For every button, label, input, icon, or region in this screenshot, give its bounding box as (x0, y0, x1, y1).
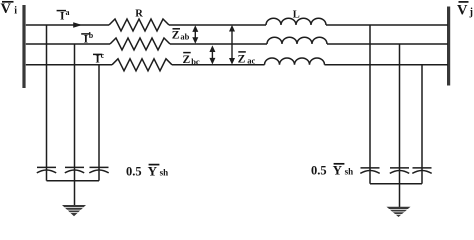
capacitor right c (412, 168, 431, 174)
svg-text:sh: sh (345, 167, 354, 177)
svg-text:Z: Z (172, 29, 180, 41)
svg-text:a: a (66, 8, 70, 17)
wire phase c left (26, 64, 112, 66)
wire rail left (47, 180, 100, 182)
current arrow Ia (73, 22, 82, 28)
wire shunt tap b right (399, 44, 401, 170)
svg-text:0.5: 0.5 (126, 164, 142, 178)
label Ia (57, 8, 70, 23)
wire shunt tap a left (46, 25, 48, 170)
wire rail right (370, 183, 422, 185)
ground left (62, 205, 86, 216)
label Zac (238, 52, 256, 66)
svg-text:R: R (135, 9, 143, 20)
wire shunt tap a right (369, 25, 371, 170)
resistor phase a (109, 19, 169, 31)
inductor phase b (267, 37, 327, 44)
impedance arrow Zac (229, 25, 235, 65)
svg-text:ac: ac (247, 55, 255, 65)
svg-text:Y: Y (148, 163, 158, 178)
label 0.5 Ysh right (311, 163, 353, 178)
svg-text:L: L (293, 10, 300, 21)
svg-text:bc: bc (191, 57, 200, 67)
wire phase a middle (169, 24, 266, 26)
wire phase b right (327, 43, 448, 45)
impedance arrow Zab (192, 25, 198, 44)
wire cap bottom leads left (47, 171, 100, 181)
svg-text:0.5: 0.5 (311, 164, 327, 178)
capacitor left c (89, 167, 108, 173)
svg-text:Y: Y (333, 163, 343, 178)
wire phase a right (326, 24, 448, 26)
wire phase b middle (170, 43, 267, 45)
svg-text:c: c (101, 51, 105, 60)
label 0.5 Ysh left (126, 163, 168, 178)
wire shunt tap c right (421, 65, 423, 170)
node Vi label (1, 1, 18, 17)
inductor phase a (266, 18, 326, 25)
wire phase b left (26, 43, 110, 45)
svg-text:V: V (1, 1, 12, 17)
inductor phase c (265, 58, 325, 65)
svg-text:b: b (89, 31, 94, 40)
label Ic (93, 51, 105, 65)
wire shunt tap b left (74, 44, 76, 170)
svg-text:i: i (14, 6, 17, 17)
node Vj label (457, 2, 473, 19)
label Zbc (183, 53, 200, 67)
label Ib (81, 31, 94, 46)
capacitor right b (390, 168, 409, 174)
resistor phase c (112, 59, 172, 71)
capacitor right a (360, 168, 379, 174)
wire cap bottom leads right (370, 171, 422, 184)
svg-text:I: I (60, 11, 65, 23)
wire phase c middle (172, 64, 265, 66)
label Zab (172, 29, 190, 42)
wire phase c right (325, 64, 449, 66)
wire shunt tap c left (98, 65, 100, 170)
svg-text:j: j (469, 7, 474, 18)
ground right (387, 207, 411, 217)
capacitor left a (37, 167, 56, 173)
svg-text:Z: Z (183, 54, 191, 66)
wire phase a left (26, 24, 109, 26)
bus bar Vi (left) (22, 5, 25, 88)
resistor phase b (110, 38, 170, 50)
wire ground stem right (399, 184, 401, 207)
svg-text:ab: ab (180, 31, 189, 41)
svg-text:Z: Z (238, 53, 246, 65)
svg-text:V: V (457, 3, 468, 19)
wire ground stem left (74, 181, 76, 206)
svg-text:sh: sh (160, 167, 169, 177)
capacitor left b (65, 167, 84, 173)
bus bar Vj (right) (447, 7, 450, 86)
impedance arrow Zbc (209, 45, 215, 64)
